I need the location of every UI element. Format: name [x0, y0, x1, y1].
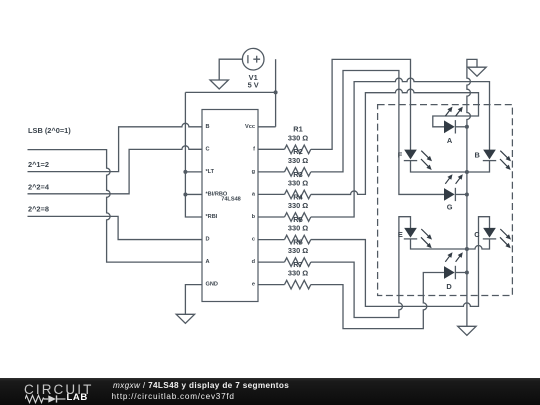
svg-text:Vcc: Vcc	[245, 124, 255, 130]
svg-text:330 Ω: 330 Ω	[288, 156, 308, 165]
svg-text:G: G	[447, 203, 453, 212]
svg-text:E: E	[398, 230, 403, 239]
svg-text:2^2=4: 2^2=4	[28, 182, 50, 191]
svg-text:74LS48: 74LS48	[221, 197, 241, 203]
svg-text:C: C	[206, 146, 210, 152]
svg-text:330 Ω: 330 Ω	[288, 133, 308, 142]
svg-text:D: D	[446, 282, 452, 291]
svg-text:LSB (2^0=1): LSB (2^0=1)	[28, 126, 71, 135]
svg-text:F: F	[398, 150, 403, 159]
svg-text:C: C	[474, 230, 480, 239]
svg-text:GND: GND	[206, 282, 218, 288]
svg-text:c: c	[252, 237, 255, 243]
svg-text:A: A	[447, 136, 453, 145]
svg-text:330 Ω: 330 Ω	[288, 178, 308, 187]
svg-text:5 V: 5 V	[248, 81, 259, 90]
svg-text:B: B	[475, 150, 480, 159]
svg-text:B: B	[206, 124, 210, 130]
svg-text:330 Ω: 330 Ω	[288, 223, 308, 232]
svg-text:*RBI: *RBI	[206, 214, 218, 220]
svg-text:e: e	[252, 282, 255, 288]
svg-text:330 Ω: 330 Ω	[288, 246, 308, 255]
svg-text:*LT: *LT	[206, 169, 215, 175]
svg-text:330 Ω: 330 Ω	[288, 269, 308, 278]
svg-text:2^2=8: 2^2=8	[28, 205, 49, 214]
svg-text:d: d	[252, 259, 256, 265]
svg-text:f: f	[253, 146, 255, 152]
svg-text:2^1=2: 2^1=2	[28, 160, 49, 169]
svg-text:D: D	[206, 237, 210, 243]
svg-text:g: g	[252, 169, 256, 175]
svg-text:330 Ω: 330 Ω	[288, 201, 308, 210]
svg-text:A: A	[206, 259, 210, 265]
svg-text:b: b	[252, 214, 256, 220]
